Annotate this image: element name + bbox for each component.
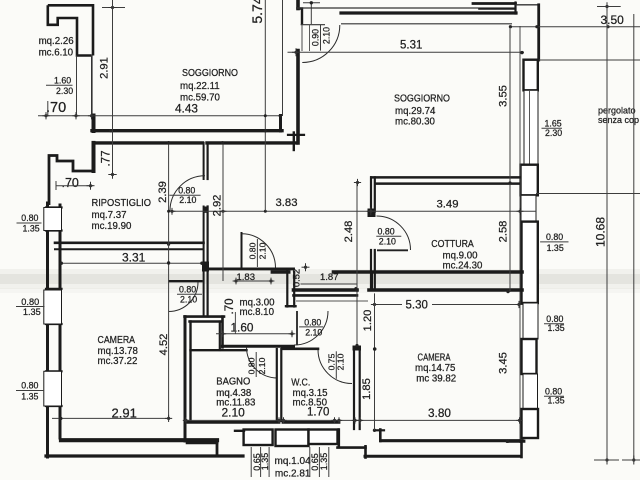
svg-text:CAMERA: CAMERA — [418, 352, 451, 363]
svg-text:senza cop: senza cop — [598, 115, 639, 125]
svg-text:3.83: 3.83 — [276, 197, 298, 209]
svg-text:SOGGIORNO: SOGGIORNO — [394, 94, 450, 105]
svg-text:5.74: 5.74 — [249, 0, 265, 24]
svg-text:1.35: 1.35 — [23, 224, 40, 234]
svg-text:1.35: 1.35 — [319, 453, 329, 471]
svg-text:1.35: 1.35 — [23, 307, 41, 317]
svg-text:0.80: 0.80 — [179, 285, 196, 295]
svg-text:0.80: 0.80 — [247, 357, 257, 374]
svg-text:1.60: 1.60 — [231, 320, 254, 334]
svg-text:1.83: 1.83 — [237, 272, 256, 283]
svg-text:2.10: 2.10 — [335, 353, 345, 370]
svg-text:10.68: 10.68 — [593, 217, 607, 247]
svg-text:COTTURA: COTTURA — [431, 239, 474, 250]
svg-text:W.C.: W.C. — [291, 378, 310, 389]
svg-text:2.10: 2.10 — [257, 357, 267, 374]
svg-text:mc.8.10: mc.8.10 — [240, 307, 275, 318]
svg-text:0.80: 0.80 — [21, 213, 38, 223]
svg-text:2.39: 2.39 — [157, 181, 169, 203]
svg-text:BAGNO: BAGNO — [216, 377, 250, 388]
svg-text:4.43: 4.43 — [175, 102, 198, 116]
svg-text:.77: .77 — [101, 151, 113, 167]
svg-text:0.80: 0.80 — [21, 381, 38, 391]
svg-text:0.90: 0.90 — [310, 29, 320, 46]
svg-text:4.52: 4.52 — [158, 334, 170, 356]
svg-text:0.80: 0.80 — [378, 227, 395, 237]
svg-text:0.52: 0.52 — [290, 269, 301, 287]
svg-text:5.31: 5.31 — [400, 40, 422, 52]
svg-text:0.80: 0.80 — [21, 297, 39, 307]
svg-text:RIPOSTIGLIO: RIPOSTIGLIO — [92, 198, 152, 209]
svg-text:mq.29.74: mq.29.74 — [395, 106, 436, 117]
svg-text:2.91: 2.91 — [98, 57, 110, 79]
svg-text:pergolato: pergolato — [598, 106, 636, 116]
svg-text:.70: .70 — [224, 299, 236, 315]
svg-text:1.65: 1.65 — [545, 118, 562, 128]
svg-text:mq.2.26: mq.2.26 — [39, 36, 74, 47]
svg-text:3.45: 3.45 — [498, 352, 510, 374]
svg-text:mc.2.81: mc.2.81 — [275, 469, 311, 480]
svg-text:2.58: 2.58 — [498, 221, 510, 243]
svg-text:0.80: 0.80 — [546, 232, 563, 242]
svg-text:2.30: 2.30 — [56, 86, 73, 96]
svg-text:2.10: 2.10 — [222, 405, 246, 419]
svg-text:mq.22.11: mq.22.11 — [180, 81, 220, 92]
svg-text:2.48: 2.48 — [343, 221, 355, 243]
svg-text:mc.80.30: mc.80.30 — [395, 117, 435, 128]
svg-text:5.30: 5.30 — [406, 300, 428, 312]
svg-text:CAMERA: CAMERA — [98, 335, 136, 346]
svg-text:3.49: 3.49 — [437, 199, 459, 211]
svg-text:1.60: 1.60 — [54, 76, 71, 86]
svg-text:1.35: 1.35 — [547, 243, 564, 253]
svg-text:mc.6.10: mc.6.10 — [39, 48, 74, 59]
svg-text:.70: .70 — [46, 100, 66, 116]
svg-text:mc.19.90: mc.19.90 — [92, 221, 132, 232]
svg-text:SOGGIORNO: SOGGIORNO — [182, 68, 238, 79]
svg-text:mq.1.04: mq.1.04 — [275, 456, 312, 467]
svg-text:2.10: 2.10 — [257, 242, 267, 259]
svg-text:2.10: 2.10 — [180, 295, 197, 305]
svg-text:0.80: 0.80 — [248, 242, 258, 259]
svg-text:1.35: 1.35 — [548, 323, 565, 333]
svg-text:1.35: 1.35 — [548, 396, 565, 406]
svg-text:mc.24.30: mc.24.30 — [443, 261, 483, 272]
svg-text:2.91: 2.91 — [112, 405, 137, 420]
svg-text:1.35: 1.35 — [21, 392, 38, 402]
svg-text:mc.37.22: mc.37.22 — [98, 356, 138, 367]
svg-text:0.80: 0.80 — [304, 317, 321, 327]
svg-text:1.20: 1.20 — [362, 310, 374, 332]
svg-text:3.55: 3.55 — [498, 85, 510, 107]
svg-text:1.70: 1.70 — [307, 406, 329, 418]
svg-text:2.30: 2.30 — [545, 128, 562, 138]
svg-text:3.50: 3.50 — [601, 13, 625, 27]
svg-text:2.10: 2.10 — [379, 236, 396, 246]
svg-text:0.80: 0.80 — [178, 185, 195, 195]
svg-text:2.10: 2.10 — [179, 195, 196, 205]
svg-text:3.80: 3.80 — [428, 406, 451, 420]
svg-text:mq.7.37: mq.7.37 — [92, 210, 127, 221]
svg-text:2.10: 2.10 — [305, 327, 322, 337]
svg-text:3.31: 3.31 — [122, 251, 146, 265]
svg-text:2.92: 2.92 — [212, 195, 224, 217]
svg-text:mc 39.82: mc 39.82 — [416, 373, 456, 384]
svg-text:1.85: 1.85 — [361, 378, 373, 400]
svg-text:2.10: 2.10 — [321, 27, 331, 44]
svg-text:.70: .70 — [62, 176, 79, 190]
